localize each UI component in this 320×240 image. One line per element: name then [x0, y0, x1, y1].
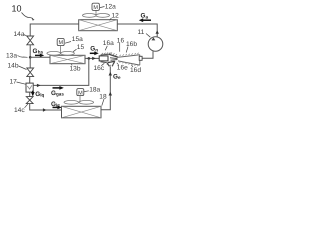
label 16e — [117, 63, 128, 72]
label 14c — [14, 104, 28, 114]
arrowhead Ge lower — [109, 92, 112, 96]
label Ga — [141, 13, 149, 20]
wire: top line left segment (HX12 to left corner, down to valve 14a) — [30, 24, 78, 36]
label 16d — [130, 65, 141, 74]
svg-text:13b: 13b — [70, 66, 81, 73]
svg-text:14b: 14b — [8, 63, 19, 70]
annotation arrow Ggas (right) — [53, 86, 64, 90]
label 14b — [8, 63, 27, 70]
ejector 16: nozzle throat — [110, 58, 118, 61]
svg-text:11: 11 — [138, 29, 145, 36]
fan 12a — [83, 10, 110, 17]
label 17 — [10, 78, 26, 85]
svg-text:18a: 18a — [89, 87, 100, 94]
svg-text:gas: gas — [56, 92, 64, 97]
annotation arrow Ga (left) — [139, 18, 151, 22]
arrowhead up on compressor discharge line — [156, 30, 159, 34]
ejector 16: suction port (hatched stub) — [107, 61, 115, 66]
svg-text:10: 10 — [12, 3, 22, 13]
arrowhead on Ggas line — [37, 84, 41, 87]
ejector 16: nozzle upper hatch wall — [101, 53, 111, 56]
svg-text:e: e — [118, 75, 121, 80]
label Gie — [51, 101, 60, 108]
heat exchanger 12 — [79, 20, 118, 31]
wire: node 13a to HX13 — [30, 56, 50, 58]
label 15a — [65, 36, 83, 43]
arrowhead on nozzle line — [92, 57, 96, 60]
motor M of fan 18a — [77, 89, 84, 97]
wire: node 13a to valve 14b — [29, 57, 31, 68]
label 14a — [14, 31, 29, 38]
svg-text:hs: hs — [38, 50, 44, 55]
svg-text:G: G — [33, 48, 38, 55]
wire: valve 14b to separator 17 — [29, 77, 31, 84]
label 18 — [99, 94, 107, 106]
ejector 16: converging nozzle bottom wall — [101, 61, 115, 62]
svg-text:14c: 14c — [14, 107, 25, 114]
compressor 11 — [148, 37, 163, 52]
motor M of fan 15 — [57, 38, 64, 46]
label 12 — [110, 13, 120, 21]
wire: valve 14a to node 13a — [29, 45, 31, 58]
label 16 — [117, 38, 125, 52]
label Gn — [90, 46, 98, 53]
valve 14c — [26, 97, 33, 104]
annotation arrow Ghs (right) — [35, 54, 44, 58]
svg-text:M: M — [78, 90, 83, 96]
heat exchanger 18 — [62, 106, 102, 118]
node 13a — [29, 56, 32, 59]
svg-text:16a: 16a — [103, 40, 114, 47]
valve 14a — [27, 36, 34, 45]
wire: top line right segment (HX12 to compressor) — [117, 24, 157, 37]
wire: Gie line (valve 14c to HX18) — [30, 104, 62, 110]
svg-text:12a: 12a — [105, 3, 116, 10]
label 10 — [12, 3, 35, 20]
label 18a — [84, 87, 100, 94]
svg-text:16d: 16d — [130, 67, 141, 74]
annotation arrow Gie (right) — [53, 106, 62, 110]
arrowhead Ge upper — [109, 72, 112, 76]
label 13a — [6, 52, 28, 59]
ejector 16: diffuser bottom wall — [118, 61, 140, 66]
svg-text:18: 18 — [99, 94, 107, 101]
svg-text:17: 17 — [10, 78, 18, 85]
wire: separator to valve 14c — [29, 92, 31, 97]
label 12a — [100, 3, 116, 10]
svg-text:16e: 16e — [117, 65, 128, 72]
wire: Ge line (evaporator to ejector suction) — [101, 66, 110, 109]
label Glq — [35, 91, 44, 98]
heat exchanger 13 — [50, 55, 85, 63]
fan 18a — [64, 96, 94, 105]
annotation arrow Glq (down) — [31, 91, 35, 97]
svg-text:a: a — [146, 15, 149, 20]
label 15 — [73, 44, 84, 52]
svg-text:M: M — [59, 40, 64, 46]
wire: compressor suction from ejector outlet — [142, 51, 153, 58]
label 13b — [70, 64, 81, 73]
label 11 — [138, 29, 151, 37]
ejector 16: converging nozzle top wall — [109, 53, 118, 58]
label Ggas — [51, 90, 64, 97]
wire: Ggas line (separator to nozzle line junction) — [33, 58, 89, 85]
annotation arrow Gn (right) — [90, 51, 99, 55]
svg-text:15a: 15a — [72, 36, 83, 43]
ejector 16: diffuser top wall — [118, 53, 140, 58]
wire: HX13 to ejector nozzle — [85, 57, 99, 59]
node at Ggas junction — [88, 57, 91, 60]
svg-text:16: 16 — [117, 38, 125, 45]
label 16c — [94, 63, 105, 72]
arrowhead on Gie line — [43, 108, 47, 111]
label 16b — [126, 41, 137, 52]
valve 14b — [27, 68, 34, 77]
svg-text:12: 12 — [112, 13, 120, 20]
label Ghs — [33, 48, 44, 55]
svg-text:13a: 13a — [6, 52, 17, 59]
fan 15 — [47, 46, 75, 55]
svg-text:15: 15 — [77, 44, 85, 51]
label Ge — [113, 73, 121, 80]
svg-text:n: n — [95, 47, 98, 52]
separator 17 — [26, 83, 33, 92]
ejector 16: nozzle inlet body — [99, 56, 108, 61]
svg-text:16c: 16c — [94, 65, 105, 72]
ejector 16: outlet end — [139, 55, 142, 65]
svg-text:M: M — [93, 5, 98, 11]
svg-text:14a: 14a — [14, 31, 25, 38]
label 16a — [103, 40, 114, 50]
motor M of fan 12a — [92, 3, 99, 11]
svg-text:lq: lq — [40, 93, 44, 98]
